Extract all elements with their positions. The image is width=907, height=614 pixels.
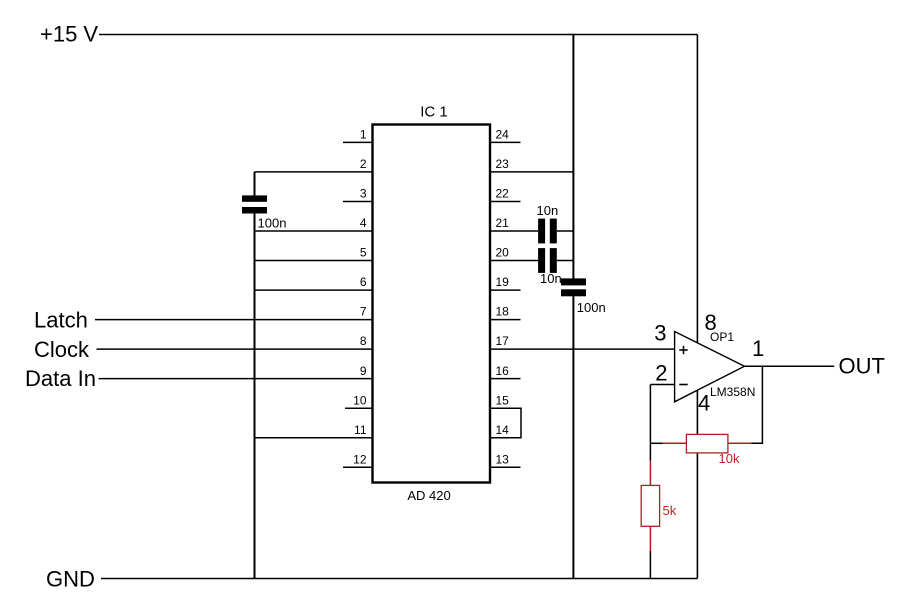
- wire 5k bottom to GND: [649, 551, 651, 579]
- pin 17 wire to op-amp non-inverting input: [491, 348, 675, 350]
- pin 12 stub: [343, 466, 372, 468]
- svg-text:5: 5: [360, 246, 367, 260]
- pin 4 wire to left bus: [255, 230, 373, 232]
- wire op-amp output: [745, 365, 835, 367]
- svg-text:15: 15: [496, 393, 510, 407]
- svg-text:22: 22: [496, 187, 510, 201]
- capacitor C2 10n plates: [538, 219, 557, 244]
- pin 24 stub: [491, 141, 521, 143]
- wire feedback from output down to R1: [752, 366, 763, 443]
- svg-text:10: 10: [353, 393, 367, 407]
- svg-text:1: 1: [752, 336, 764, 361]
- svg-text:2: 2: [360, 157, 367, 171]
- op-amp U2 triangle: [675, 332, 745, 402]
- svg-text:4: 4: [698, 391, 710, 416]
- pin 16 stub: [491, 378, 521, 380]
- svg-text:7: 7: [360, 305, 367, 319]
- svg-text:100n: 100n: [577, 300, 606, 315]
- pin 20 wire to capacitor C3: [491, 260, 539, 262]
- wire op-amp inverting input: [650, 384, 674, 386]
- svg-text:+15 V: +15 V: [40, 22, 98, 47]
- svg-text:19: 19: [496, 275, 510, 289]
- pin 13 stub: [491, 466, 521, 468]
- svg-text:9: 9: [360, 364, 367, 378]
- svg-text:18: 18: [496, 305, 510, 319]
- svg-text:20: 20: [496, 246, 510, 260]
- pin 5 wire to left bus: [255, 260, 373, 262]
- svg-text:GND: GND: [46, 567, 95, 592]
- svg-text:10k: 10k: [719, 451, 740, 466]
- svg-text:14: 14: [496, 423, 510, 437]
- op-amp plus symbol: [679, 346, 687, 354]
- svg-text:24: 24: [496, 128, 510, 142]
- wire +15V rail: [99, 34, 698, 36]
- resistor R1 10k right lead: [728, 442, 752, 444]
- pin 21 wire to capacitor C2: [491, 230, 539, 232]
- op-amp minus symbol: [679, 384, 687, 386]
- pin 6 wire to left bus: [255, 289, 373, 291]
- resistor R2 5k top lead: [649, 461, 651, 486]
- wire Data In to pin 9: [99, 378, 373, 380]
- wire Latch to pin 7: [95, 319, 372, 321]
- svg-text:IC 1: IC 1: [420, 104, 448, 121]
- wire left bus upper segment (pin2 to C1): [254, 172, 256, 196]
- svg-text:AD 420: AD 420: [407, 488, 450, 503]
- pin 1 of IC1 stub: [343, 141, 372, 143]
- wire C2 to right bus: [557, 230, 574, 232]
- pin 3 stub: [343, 201, 372, 203]
- svg-text:17: 17: [496, 334, 510, 348]
- capacitor C3 10n plates: [538, 248, 557, 273]
- svg-text:11: 11: [354, 423, 367, 437]
- wire right decoupling bus lower segment: [572, 296, 574, 579]
- pin 18 stub: [491, 319, 521, 321]
- wire right decoupling bus upper segment: [572, 34, 574, 279]
- svg-text:3: 3: [360, 187, 367, 201]
- svg-text:LM358N: LM358N: [710, 385, 755, 399]
- wire C3 to right bus: [557, 260, 574, 262]
- svg-text:16: 16: [496, 364, 510, 378]
- svg-text:OUT: OUT: [839, 354, 885, 379]
- capacitor C4 100n (right bus) plates: [561, 278, 586, 296]
- wire inverting node vertical: [649, 385, 651, 461]
- pin 23 wire to right bus: [491, 171, 574, 173]
- pin 11 wire to left bus: [255, 437, 373, 439]
- pin 10 stub: [345, 407, 372, 409]
- wire op-amp pin 4 to GND: [696, 391, 698, 579]
- svg-text:12: 12: [353, 452, 367, 466]
- capacitor C1 100n (left) plates: [242, 195, 267, 213]
- wire left bus lower segment (C1 to GND): [254, 213, 256, 579]
- IC U1 body (IC 1 / AD 420): [373, 125, 491, 483]
- wire +15V drop to op-amp pin 8: [696, 35, 698, 343]
- svg-text:4: 4: [360, 216, 367, 230]
- wire GND rail: [101, 578, 697, 580]
- resistor R1 10k left lead: [663, 442, 687, 444]
- svg-text:Data In: Data In: [25, 366, 96, 391]
- resistor R2 5k bottom lead: [649, 526, 651, 551]
- wire pin 15 to pin 14 bracket: [491, 408, 522, 438]
- svg-text:8: 8: [360, 334, 367, 348]
- svg-text:6: 6: [360, 275, 367, 289]
- svg-text:13: 13: [496, 452, 510, 466]
- wire Clock to pin 8: [97, 348, 373, 350]
- svg-text:23: 23: [496, 157, 510, 171]
- svg-text:1: 1: [360, 128, 367, 142]
- pin 19 stub: [491, 289, 521, 291]
- svg-text:Latch: Latch: [34, 308, 88, 333]
- svg-text:2: 2: [655, 361, 667, 386]
- wire inverting node to R1 left lead: [650, 442, 663, 444]
- svg-text:10n: 10n: [537, 203, 559, 218]
- svg-text:5k: 5k: [663, 503, 677, 518]
- pin 2 wire to left bus: [255, 171, 373, 173]
- svg-text:21: 21: [496, 216, 510, 230]
- svg-text:10n: 10n: [540, 271, 562, 286]
- resistor R2 5k body: [641, 485, 659, 526]
- svg-text:Clock: Clock: [34, 337, 90, 362]
- svg-text:OP1: OP1: [710, 330, 734, 344]
- svg-text:3: 3: [654, 321, 666, 346]
- resistor R1 10k body: [686, 434, 728, 453]
- pin 22 stub: [491, 201, 521, 203]
- svg-text:100n: 100n: [258, 215, 287, 230]
